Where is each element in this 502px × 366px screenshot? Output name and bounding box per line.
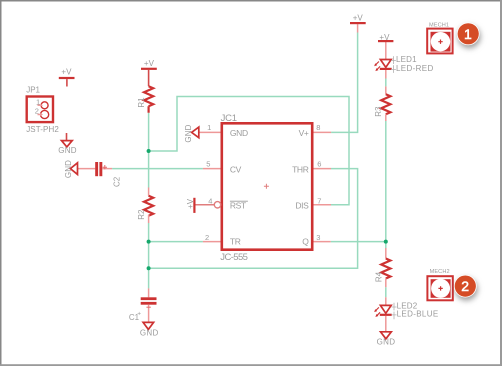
capacitor C1 — [141, 288, 157, 322]
pin 6 THR lead — [314, 168, 332, 170]
resistor R4 — [381, 248, 390, 287]
resistor R2 — [144, 188, 153, 224]
svg-text:2: 2 — [461, 278, 469, 294]
svg-text:1: 1 — [207, 123, 211, 132]
svg-text:2: 2 — [35, 106, 39, 115]
svg-text:R2: R2 — [137, 209, 146, 220]
svg-text:GND: GND — [64, 160, 73, 178]
svg-text:GND: GND — [184, 124, 193, 142]
pin 4 RST lead with bubble — [195, 202, 221, 208]
svg-text:JP1: JP1 — [26, 86, 40, 95]
wire column R2 bottom to C1 — [148, 223, 150, 288]
wire net Q: pin 3 to LED column — [331, 241, 386, 243]
badge 1 — [457, 22, 480, 45]
wire column R1 to R2 — [148, 113, 150, 188]
svg-text:1: 1 — [464, 26, 472, 42]
diode LED2 — [374, 297, 392, 332]
ground under JP1 — [62, 133, 73, 147]
svg-text:+V: +V — [353, 14, 364, 23]
svg-text:GND: GND — [230, 128, 248, 138]
wire net THR: pin 6 right, down, left to column — [149, 169, 358, 269]
wire R3 to Q junction — [385, 121, 387, 242]
ground left of C2 — [70, 163, 95, 175]
svg-text:JC1: JC1 — [221, 113, 237, 124]
pin 7 DIS lead — [314, 204, 332, 206]
svg-text:JST-PH2: JST-PH2 — [26, 125, 59, 134]
resistor R3 — [381, 86, 390, 121]
wire net V+ rail: +V top right down to pin 8 — [331, 33, 358, 133]
pin 2 TR lead — [203, 241, 221, 243]
svg-text:V+: V+ — [299, 128, 309, 138]
page frame — [0, 0, 502, 2]
ground at pin 1 — [192, 127, 199, 138]
capacitor C2 — [95, 162, 112, 176]
junction Q node — [384, 240, 388, 244]
wire net TR: column to pin 2 — [149, 241, 203, 243]
mechanical MECH1 — [427, 29, 452, 54]
supply +V above R1 — [141, 69, 157, 86]
pin 8 V+ lead — [314, 131, 332, 133]
svg-text:JC-555: JC-555 — [220, 252, 247, 263]
svg-text:R4: R4 — [375, 271, 384, 282]
wire net CV: C2 to pin 5 — [112, 168, 203, 170]
svg-text:LED-RED: LED-RED — [396, 64, 434, 73]
svg-text:+V: +V — [379, 33, 390, 42]
svg-text:LED-BLUE: LED-BLUE — [397, 310, 439, 319]
svg-text:2: 2 — [205, 233, 209, 242]
supply +V above LED1 — [378, 41, 393, 59]
supply +V rotated at RST — [193, 198, 195, 213]
ground under C1 — [143, 322, 154, 329]
wire LED1 to R3 — [385, 79, 387, 87]
svg-text:R1: R1 — [137, 97, 146, 108]
svg-text:1: 1 — [36, 97, 40, 106]
svg-text:R3: R3 — [374, 106, 383, 117]
op IC JC1 555 — [222, 123, 312, 249]
svg-text:+V: +V — [144, 59, 155, 68]
pin 5 CV lead — [203, 168, 221, 170]
svg-text:8: 8 — [316, 123, 320, 132]
svg-text:Q: Q — [302, 237, 309, 247]
supply +V near JP1 — [59, 78, 75, 87]
pin 1 GND lead — [199, 131, 221, 133]
svg-text:5: 5 — [206, 159, 210, 168]
svg-text:4: 4 — [208, 196, 212, 205]
svg-text:MECH2: MECH2 — [430, 269, 450, 275]
svg-text:7: 7 — [317, 196, 321, 205]
svg-text:+V: +V — [61, 68, 72, 77]
junction TR node — [147, 240, 151, 244]
pin 3 Q lead — [314, 241, 331, 243]
mechanical MECH2 — [427, 276, 452, 300]
origin mark LED2 — [392, 303, 397, 311]
svg-text:GND: GND — [377, 338, 396, 347]
resistor R1 — [144, 86, 153, 113]
ground under LED2 — [381, 332, 392, 339]
wire R4 to LED2 — [385, 287, 387, 297]
wire net DIS: R1 bottom junction over top to DIS pin 7 — [149, 97, 349, 205]
origin mark LED1 — [391, 56, 396, 64]
wire Q junction to R4 — [385, 242, 387, 248]
svg-text:MECH1: MECH1 — [429, 23, 449, 29]
svg-text:6: 6 — [317, 159, 321, 168]
diode LED1 — [374, 60, 392, 79]
junction under R1 — [147, 149, 151, 153]
svg-text:+: + — [137, 310, 141, 317]
svg-text:GND: GND — [58, 146, 77, 155]
junction THR node — [147, 266, 151, 270]
svg-text:RST: RST — [230, 201, 246, 211]
svg-text:TR: TR — [230, 237, 241, 247]
svg-text:GND: GND — [140, 328, 159, 337]
svg-text:THR: THR — [292, 164, 309, 174]
svg-text:DIS: DIS — [295, 201, 309, 211]
badge 2 — [454, 275, 477, 298]
svg-text:CV: CV — [230, 164, 242, 174]
svg-text:C2: C2 — [112, 176, 121, 187]
svg-text:LED1: LED1 — [396, 55, 417, 64]
connector JP1 — [27, 97, 53, 123]
svg-text:3: 3 — [316, 233, 320, 242]
supply +V top right — [350, 23, 366, 32]
svg-text:+V: +V — [186, 198, 195, 209]
